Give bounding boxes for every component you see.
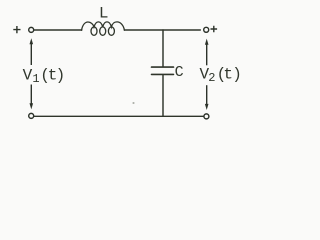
wire top-right segment: [124, 29, 200, 31]
V2 arrow lower (points down to bottom-right terminal): [206, 85, 208, 104]
svg-text:V1(t): V1(t): [23, 67, 66, 86]
wire capacitor bottom lead: [162, 75, 164, 116]
wire top-left segment: [34, 29, 82, 31]
terminal bottom-left: [29, 113, 34, 118]
plus sign left: [13, 26, 20, 33]
V1 arrow lower (points down to bottom-left terminal): [30, 85, 32, 104]
wire bottom rail: [34, 115, 203, 117]
capacitor C top plate: [152, 66, 174, 68]
plus sign right: [211, 26, 218, 33]
svg-text:L: L: [99, 4, 109, 22]
terminal top-right: [204, 27, 209, 32]
V1 arrow upper (points up to top-left terminal): [30, 44, 32, 65]
terminal top-left: [29, 27, 34, 32]
inductor L1 coil: [82, 22, 125, 30]
wire capacitor top lead: [162, 30, 164, 66]
svg-text:C: C: [175, 64, 184, 81]
terminal bottom-right: [204, 114, 209, 119]
inductor L1 loop 2: [100, 27, 106, 35]
capacitor C bottom plate: [152, 73, 174, 75]
V2 arrow upper (points up to top-right terminal): [206, 44, 208, 65]
svg-text:V2(t): V2(t): [200, 66, 242, 85]
inductor L1 loop 1: [91, 27, 97, 35]
stray ink speck: [132, 102, 134, 104]
inductor L1 loop 3: [108, 27, 114, 35]
